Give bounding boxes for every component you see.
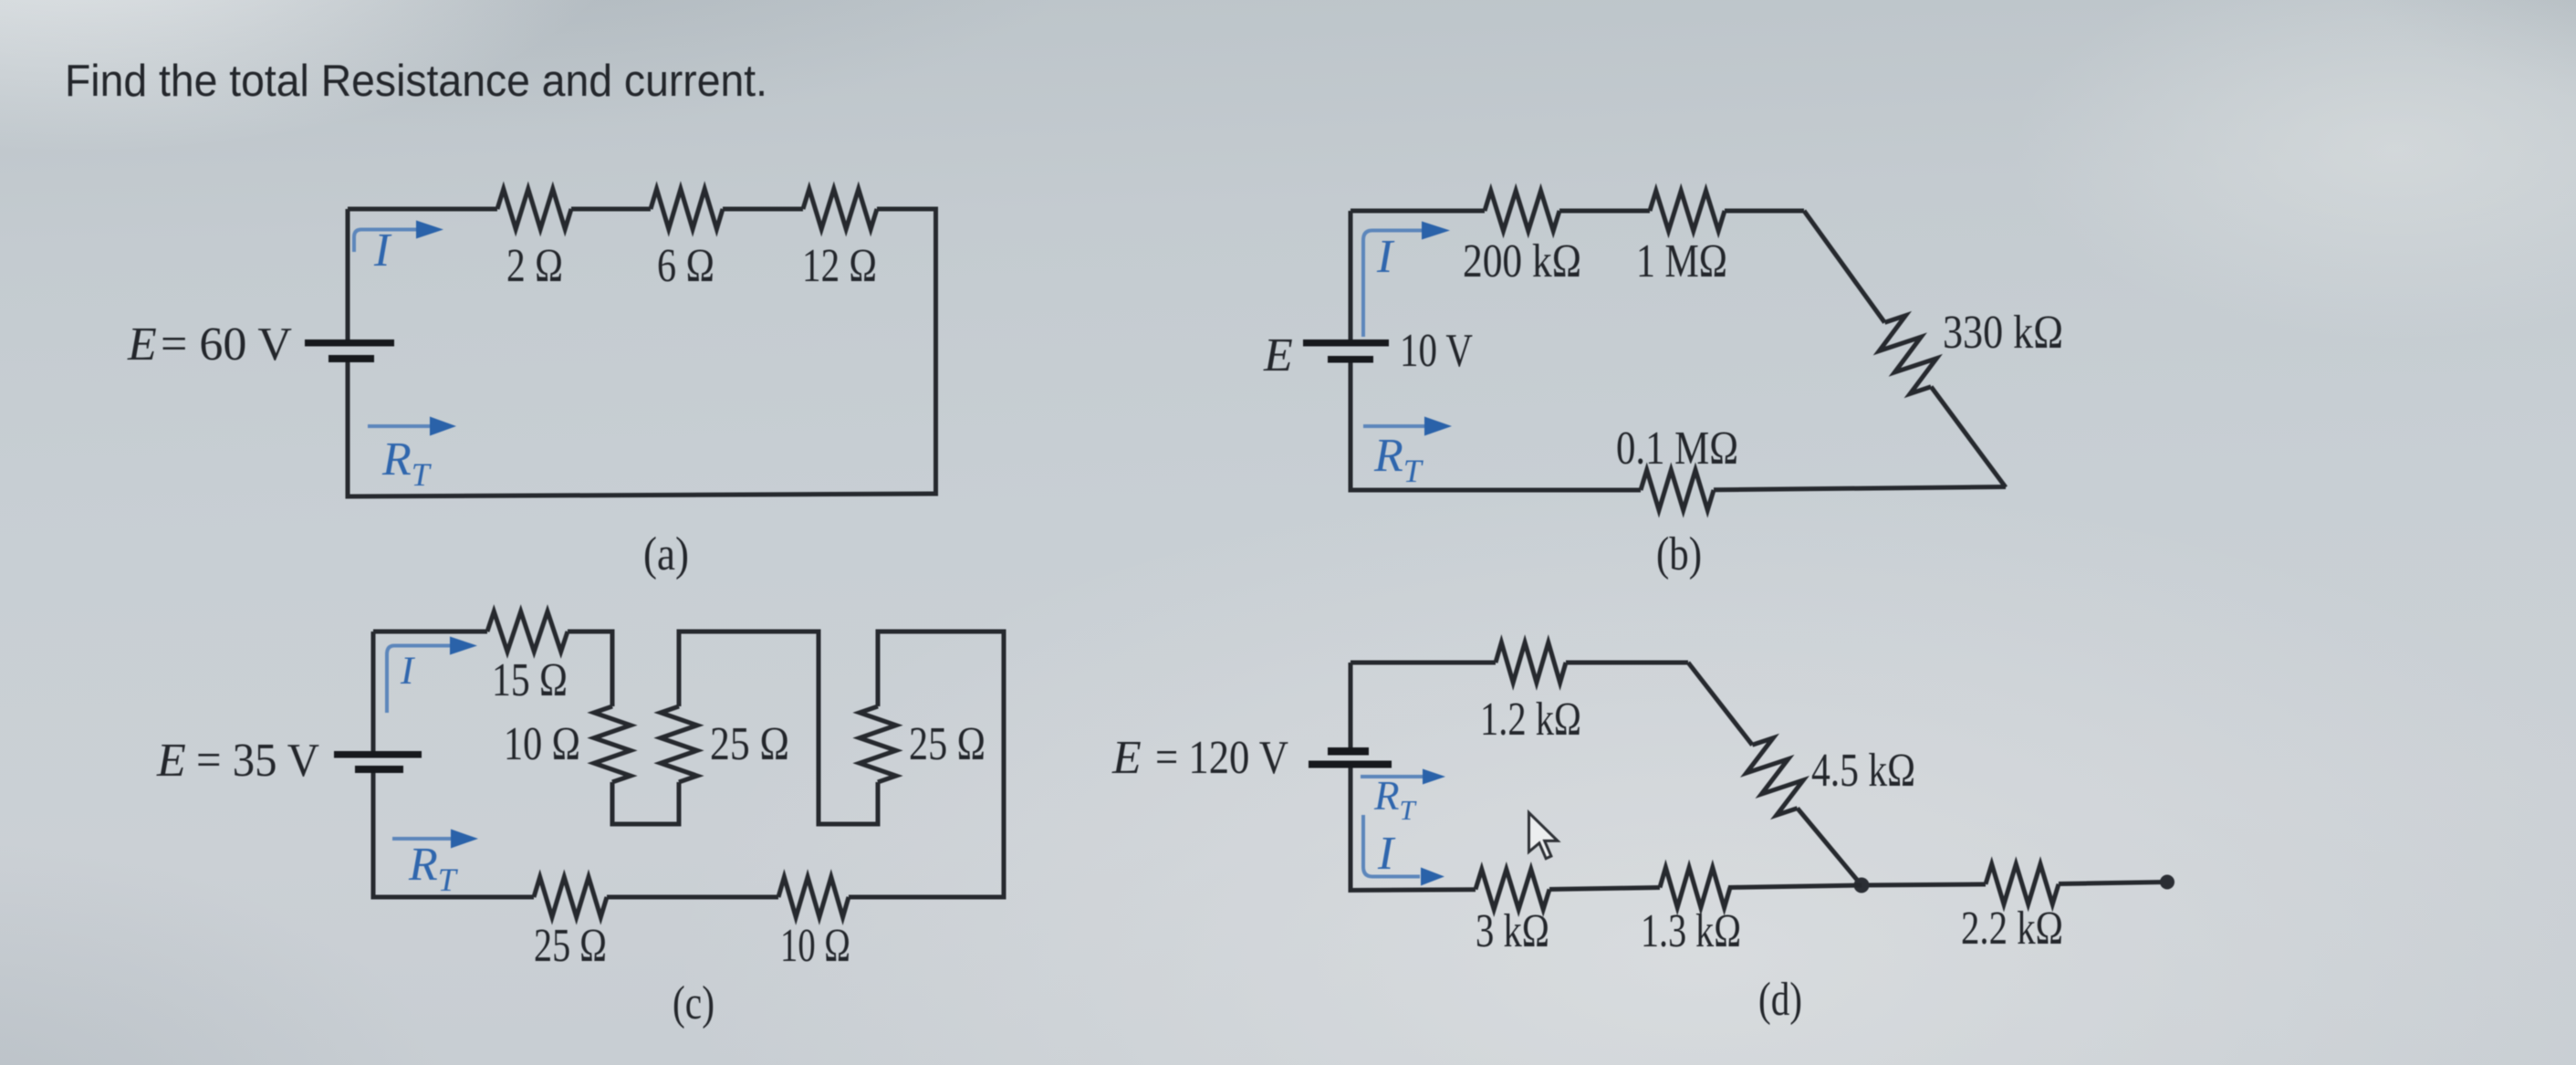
wire (b) top-right to corner <box>1725 209 1804 214</box>
svg-text:I: I <box>1376 231 1395 283</box>
wire (d) bottom: right stub with 2.2k <box>1862 884 1986 885</box>
resistor R1 2ohm <box>497 189 571 229</box>
svg-text:(d): (d) <box>1758 974 1802 1026</box>
current I arrow <box>1363 231 1422 338</box>
resistor 4.5k diagonal <box>1747 738 1803 816</box>
wire (b) diagonal upper <box>1804 211 1884 322</box>
battery E short plate <box>355 766 403 773</box>
svg-text:= 35 V: = 35 V <box>196 735 319 787</box>
svg-text:3 kΩ: 3 kΩ <box>1476 905 1549 957</box>
node end dot <box>2160 875 2174 890</box>
svg-text:(b): (b) <box>1656 528 1702 580</box>
resistor R3 12ohm <box>803 189 877 229</box>
svg-text:(a): (a) <box>643 528 689 580</box>
node junction dot <box>1854 878 1870 893</box>
battery E long plate <box>334 751 422 758</box>
svg-text:E: E <box>127 318 157 371</box>
resistor 330k diagonal <box>1879 316 1936 394</box>
svg-text:25 Ω: 25 Ω <box>534 920 607 972</box>
resistor 1.3k <box>1660 868 1730 908</box>
svg-text:330 kΩ: 330 kΩ <box>1943 307 2063 359</box>
resistor 25ohm bottom <box>534 877 607 917</box>
RT arrow <box>1363 424 1425 428</box>
svg-text:= 120 V: = 120 V <box>1155 732 1288 784</box>
svg-text:25 Ω: 25 Ω <box>710 718 789 770</box>
svg-text:1.3 kΩ: 1.3 kΩ <box>1641 905 1741 957</box>
wire (c) box2 top and right side down <box>849 632 1004 897</box>
battery E short plate <box>1328 356 1373 363</box>
resistor 25ohm second vertical <box>860 706 896 782</box>
wire (a) top-right + right side + bottom <box>348 209 936 496</box>
svg-text:10 Ω: 10 Ω <box>504 718 580 770</box>
wire (d) bottom mid-left segment <box>1549 888 1660 890</box>
svg-text:E: E <box>156 735 186 787</box>
wire (b) bottom left segment <box>1351 362 1641 490</box>
RT arrow <box>368 424 430 428</box>
RT arrow <box>1361 775 1423 778</box>
wire (c) top to corner and down <box>568 632 612 706</box>
resistor 10ohm bottom <box>778 877 849 917</box>
svg-text:(c): (c) <box>673 977 714 1029</box>
wire (d) bottom left and left side <box>1351 767 1476 891</box>
wire (c) U1 bottom <box>612 782 679 824</box>
wire (b) diagonal lower <box>1931 387 2006 487</box>
wire (b) bottom right segment <box>1714 487 2006 490</box>
wire (c) box1 top and right side down <box>679 632 878 824</box>
wire (c) bottom left and left side <box>373 772 534 897</box>
resistor 15ohm <box>487 611 568 652</box>
wire (d) diagonal lower <box>1798 809 1862 885</box>
battery E short plate top <box>1328 747 1369 756</box>
wire (d) top to corner <box>1566 661 1688 665</box>
svg-text:RT: RT <box>1373 430 1424 489</box>
wire (b) top mid <box>1559 209 1650 214</box>
resistor R2 6ohm <box>651 189 723 229</box>
svg-text:2 Ω: 2 Ω <box>506 240 563 292</box>
battery E long plate <box>1303 339 1389 347</box>
resistor 10ohm vertical <box>594 706 631 782</box>
wire (a) top mid1 <box>571 207 651 212</box>
svg-text:15 Ω: 15 Ω <box>492 654 568 706</box>
resistor 0.1M bottom <box>1641 470 1714 510</box>
resistor 1.2k <box>1496 642 1566 683</box>
svg-text:12 Ω: 12 Ω <box>802 240 877 292</box>
wire (d) left above battery <box>1349 663 1353 748</box>
wire (c) top-left segment <box>373 630 487 634</box>
resistor 3k <box>1476 870 1549 910</box>
svg-text:6 Ω: 6 Ω <box>657 240 714 292</box>
wire (d) top-left segment <box>1351 661 1496 665</box>
RT arrow <box>392 837 452 841</box>
resistor 1M <box>1650 191 1725 231</box>
wire (c) bottom middle segment <box>607 895 778 900</box>
current I arrow <box>1363 815 1420 877</box>
wire (a) top-left segment <box>348 207 497 212</box>
wire (a) top mid2 <box>723 207 803 212</box>
wire (b) top-left segment <box>1351 209 1485 214</box>
current I arrow <box>354 230 417 253</box>
svg-text:10 V: 10 V <box>1400 325 1473 377</box>
svg-text:200 kΩ: 200 kΩ <box>1463 235 1581 287</box>
svg-text:I: I <box>1377 828 1396 880</box>
wire (d) bottom mid segment <box>1728 885 1862 888</box>
svg-text:E: E <box>1263 329 1293 381</box>
wire (c) left above battery <box>371 632 376 751</box>
svg-text:10 Ω: 10 Ω <box>780 920 850 972</box>
svg-text:RT: RT <box>381 433 433 493</box>
wire (b) left above battery <box>1349 211 1353 339</box>
wire (d) diagonal upper <box>1688 663 1752 745</box>
resistor 2.2k <box>1986 864 2059 904</box>
svg-text:I: I <box>373 224 392 277</box>
current I arrow <box>387 646 451 714</box>
svg-text:= 60 V: = 60 V <box>161 318 292 371</box>
svg-text:0.1 MΩ: 0.1 MΩ <box>1616 423 1738 475</box>
wire (a) left above battery <box>346 209 350 339</box>
svg-text:1.2 kΩ: 1.2 kΩ <box>1480 694 1581 746</box>
battery E long plate <box>305 339 394 347</box>
svg-text:I: I <box>400 650 415 693</box>
resistor 200k <box>1485 191 1559 231</box>
resistor 25ohm first vertical <box>661 706 697 782</box>
svg-text:RT: RT <box>1373 773 1418 826</box>
svg-text:Find the total Resistance and: Find the total Resistance and current. <box>65 57 767 106</box>
svg-text:E: E <box>1111 732 1142 784</box>
svg-text:4.5 kΩ: 4.5 kΩ <box>1811 745 1915 797</box>
battery E long plate <box>1309 761 1392 768</box>
wire (d) stub end <box>2059 882 2167 884</box>
svg-text:1 MΩ: 1 MΩ <box>1636 235 1727 287</box>
svg-text:2.2 kΩ: 2.2 kΩ <box>1961 903 2063 955</box>
battery E short plate <box>329 355 374 362</box>
svg-text:25 Ω: 25 Ω <box>909 718 986 770</box>
mouse cursor <box>1529 813 1559 859</box>
